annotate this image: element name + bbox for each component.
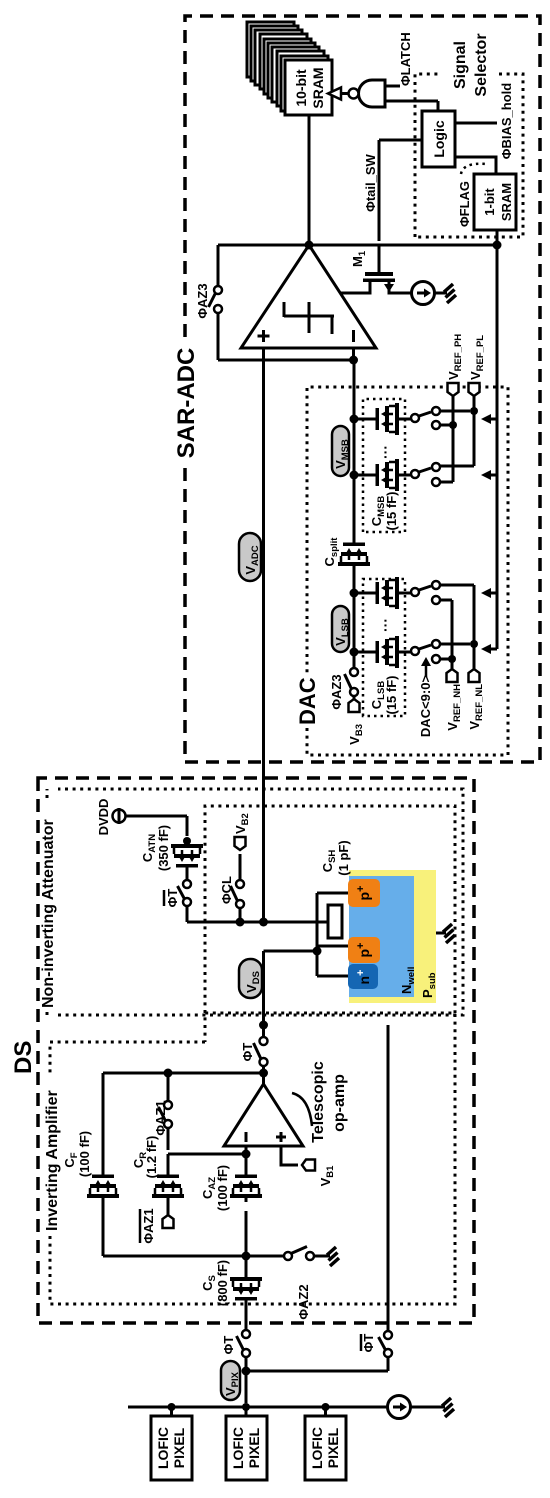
svg-text:DS: DS xyxy=(10,1041,37,1074)
svg-text:LOFIC: LOFIC xyxy=(155,1427,171,1469)
svg-text:(15 fF): (15 fF) xyxy=(384,492,399,531)
svg-text:(100 fF): (100 fF) xyxy=(77,1131,92,1177)
svg-text:(15 fF): (15 fF) xyxy=(384,676,399,715)
svg-text:ΦT: ΦT xyxy=(165,889,180,908)
svg-text:ΦAZ3: ΦAZ3 xyxy=(195,283,210,318)
svg-text:Selector: Selector xyxy=(473,33,490,96)
svg-text:Logic: Logic xyxy=(431,120,447,158)
svg-text:DVDD: DVDD xyxy=(96,799,111,836)
svg-text:ΦCL: ΦCL xyxy=(219,876,234,904)
svg-text:···: ··· xyxy=(377,445,393,459)
svg-text:ΦFLAG: ΦFLAG xyxy=(457,181,472,227)
svg-text:ΦAZ1: ΦAZ1 xyxy=(153,1100,168,1135)
svg-text:(350 fF): (350 fF) xyxy=(156,825,171,871)
svg-text:ΦBIAS_hold: ΦBIAS_hold xyxy=(499,83,514,159)
svg-text:PIXEL: PIXEL xyxy=(325,1427,341,1468)
svg-text:PIXEL: PIXEL xyxy=(171,1427,187,1468)
svg-text:Signal: Signal xyxy=(452,41,469,89)
svg-text:ΦLATCH: ΦLATCH xyxy=(398,32,413,86)
svg-text:Telescopic: Telescopic xyxy=(310,1061,327,1143)
svg-text:ΦAZ1: ΦAZ1 xyxy=(141,1208,156,1243)
svg-text:(1 pF): (1 pF) xyxy=(336,840,351,875)
svg-text:DAC<9:0>: DAC<9:0> xyxy=(418,675,433,738)
svg-text:Non-inverting Attenuator: Non-inverting Attenuator xyxy=(40,819,57,1008)
svg-text:LOFIC: LOFIC xyxy=(230,1427,246,1469)
svg-text:DAC: DAC xyxy=(295,677,320,725)
svg-text:10-bit: 10-bit xyxy=(293,69,309,107)
svg-text:(100 fF): (100 fF) xyxy=(215,1165,230,1211)
svg-text:SRAM: SRAM xyxy=(499,183,514,221)
svg-text:···: ··· xyxy=(377,618,393,632)
svg-text:op-amp: op-amp xyxy=(331,1074,348,1132)
svg-text:Φtail_SW: Φtail_SW xyxy=(363,153,378,211)
svg-text:ΦT: ΦT xyxy=(361,1334,376,1353)
svg-text:ΦT: ΦT xyxy=(221,1336,236,1355)
svg-text:SAR-ADC: SAR-ADC xyxy=(173,348,200,459)
svg-text:LOFIC: LOFIC xyxy=(309,1427,325,1469)
svg-text:SRAM: SRAM xyxy=(310,67,326,108)
svg-text:Inverting Amplifier: Inverting Amplifier xyxy=(44,1090,61,1231)
svg-text:ΦAZ2: ΦAZ2 xyxy=(296,1284,311,1319)
svg-text:1-bit: 1-bit xyxy=(482,188,497,216)
svg-text:(800 fF): (800 fF) xyxy=(215,1260,230,1306)
svg-text:(1.2 fF): (1.2 fF) xyxy=(144,1136,159,1179)
svg-text:ΦAZ3: ΦAZ3 xyxy=(329,674,344,709)
svg-text:ΦT: ΦT xyxy=(240,1043,255,1062)
svg-text:PIXEL: PIXEL xyxy=(246,1427,262,1468)
